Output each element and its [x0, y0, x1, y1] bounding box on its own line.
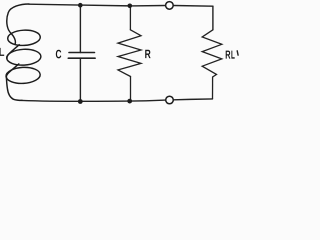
- wire top rail (left segment, coil to top terminal): [29, 4, 165, 6]
- capacitor C: [68, 5, 95, 101]
- label C: [56, 50, 62, 59]
- cap bottom plate: [68, 57, 95, 59]
- label RL: [226, 51, 231, 59]
- label R: [145, 50, 150, 58]
- R top lead: [129, 6, 131, 30]
- wire RL top lead: [212, 6, 214, 30]
- resistor R: [118, 6, 141, 101]
- resistor RL: [202, 30, 222, 99]
- coil loop 1: [7, 29, 40, 46]
- cap top wire: [79, 5, 81, 52]
- wire bottom rail (right of terminal): [174, 98, 213, 101]
- coil connector loop2-loop3: [6, 64, 18, 77]
- coil connector loop1-loop2: [7, 45, 19, 59]
- coil loop 3: [6, 67, 41, 85]
- junction dot cap bottom: [78, 99, 83, 104]
- cap bottom wire: [79, 58, 81, 101]
- junction dot R top: [128, 4, 133, 9]
- RL zigzag: [202, 30, 222, 77]
- wire top rail (right segment, terminal to RL corner): [174, 5, 213, 8]
- label RL partial third glyph: [236, 51, 239, 55]
- label L: [0, 48, 4, 56]
- coil exit arc to bottom rail: [6, 77, 22, 100]
- coil entry arc from top rail: [7, 4, 29, 44]
- cap top plate: [69, 52, 95, 54]
- coil loop 2: [6, 48, 41, 66]
- junction dot R bottom: [127, 99, 132, 104]
- terminal top: [166, 2, 174, 10]
- RL bottom lead: [212, 77, 214, 99]
- inductor L: [6, 4, 42, 100]
- junction dot cap top: [78, 3, 83, 8]
- terminal bottom: [166, 96, 174, 104]
- R bottom lead: [130, 77, 132, 102]
- R zigzag: [118, 30, 141, 77]
- wire bottom rail: [22, 100, 165, 101]
